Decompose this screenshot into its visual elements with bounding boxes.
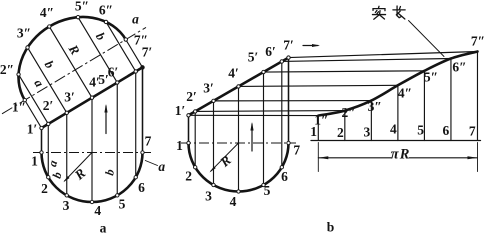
- svg-text:a: a: [158, 159, 165, 174]
- svg-text:1′: 1′: [175, 103, 186, 118]
- svg-text:1″: 1″: [12, 99, 26, 114]
- svg-text:7″: 7″: [471, 33, 485, 48]
- svg-text:5″: 5″: [75, 0, 89, 14]
- svg-text:3: 3: [63, 198, 70, 213]
- svg-text:5: 5: [417, 122, 424, 137]
- svg-text:5: 5: [264, 183, 271, 198]
- svg-text:1: 1: [31, 153, 38, 168]
- svg-text:7: 7: [469, 124, 476, 139]
- svg-text:4: 4: [94, 203, 101, 218]
- svg-text:3″: 3″: [17, 25, 31, 40]
- svg-text:2: 2: [41, 181, 48, 196]
- svg-text:2′: 2′: [186, 89, 197, 104]
- svg-text:5′: 5′: [248, 49, 259, 64]
- svg-text:4″: 4″: [40, 5, 54, 20]
- svg-text:6′: 6′: [108, 64, 119, 79]
- svg-text:3: 3: [205, 188, 212, 203]
- svg-text:4″: 4″: [398, 85, 412, 100]
- svg-text:a: a: [132, 11, 139, 26]
- svg-text:6′: 6′: [265, 44, 276, 59]
- svg-text:7′: 7′: [283, 37, 294, 52]
- svg-text:4: 4: [230, 194, 237, 209]
- svg-text:b: b: [327, 219, 335, 234]
- svg-text:2: 2: [337, 125, 344, 140]
- svg-text:7′: 7′: [142, 44, 153, 59]
- svg-text:6: 6: [443, 123, 450, 138]
- svg-text:6: 6: [138, 180, 145, 195]
- svg-text:2″: 2″: [341, 105, 355, 120]
- svg-text:3: 3: [364, 124, 371, 139]
- svg-text:1″: 1″: [314, 113, 328, 128]
- svg-text:5: 5: [119, 196, 126, 211]
- svg-text:a: a: [100, 220, 107, 235]
- svg-text:3″: 3″: [368, 99, 382, 114]
- svg-text:2″: 2″: [0, 62, 14, 77]
- svg-text:π R: π R: [391, 146, 410, 162]
- svg-text:2′: 2′: [43, 98, 54, 113]
- svg-text:5″: 5″: [424, 69, 438, 84]
- svg-text:6″: 6″: [452, 59, 466, 74]
- svg-text:6″: 6″: [99, 3, 113, 18]
- svg-text:7: 7: [293, 143, 300, 158]
- svg-text:6: 6: [281, 169, 288, 184]
- svg-text:7: 7: [145, 133, 152, 148]
- svg-text:4′: 4′: [228, 66, 239, 81]
- svg-text:3′: 3′: [203, 80, 214, 95]
- svg-text:2: 2: [185, 168, 192, 183]
- svg-text:4: 4: [390, 122, 397, 137]
- svg-text:1′: 1′: [27, 121, 38, 136]
- svg-text:3′: 3′: [64, 89, 75, 104]
- svg-text:1: 1: [176, 138, 183, 153]
